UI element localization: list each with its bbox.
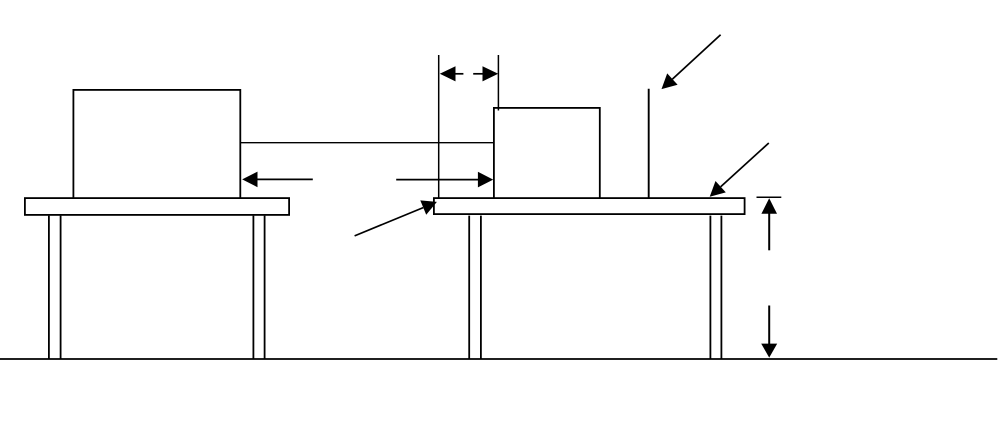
height dimension down arrow [761,306,777,358]
height dimension top tick [757,196,782,198]
left table top [25,198,289,215]
right block on right table [494,108,600,198]
left block on left table [73,90,240,198]
string connecting left block to right block [241,142,494,144]
left-pointing arrow at left block [242,172,313,188]
dimension extension line (left) [438,55,440,198]
upper diagonal pointer arrow (to stick) [662,35,721,89]
right table top [434,198,745,214]
height dimension up arrow [761,198,777,250]
middle diagonal pointer arrow (to table top) [710,143,769,197]
dimension double arrow, right half [473,66,498,81]
right table front-left leg [469,216,481,359]
right-pointing arrow at right block [396,172,493,188]
left table front-right leg [253,216,264,359]
left table front-left leg [49,216,61,359]
ground [0,358,997,360]
right table front-right leg [710,216,721,359]
vertical stick on right table [648,89,650,198]
lower-left diagonal pointer arrow (to table corner) [355,200,437,236]
dimension double arrow, left half [440,66,464,81]
dimension extension line (right) [497,55,499,111]
